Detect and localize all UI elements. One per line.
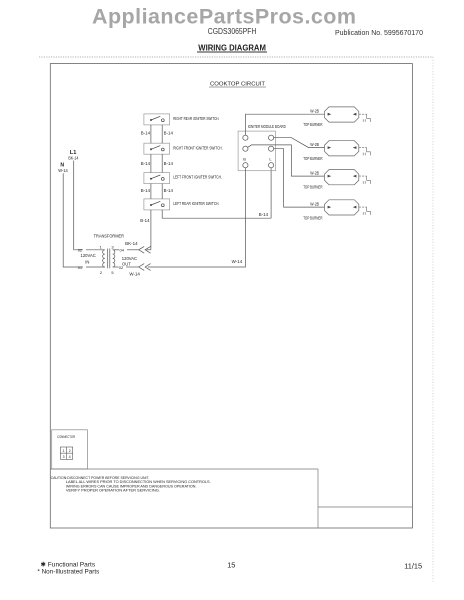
wire L1 to transformer primary top — [74, 161, 83, 250]
svg-text:2: 2 — [69, 449, 71, 453]
watermark logo AppliancePartsPros.com — [92, 5, 356, 29]
wire label B-14 row1 left — [141, 131, 151, 136]
svg-text:TOP BURNER: TOP BURNER — [303, 185, 322, 190]
svg-text:01: 01 — [78, 265, 83, 270]
svg-text:RIGHT REAR IGNITER SWITCH.: RIGHT REAR IGNITER SWITCH. — [173, 116, 219, 122]
switch S4 symbol — [150, 201, 164, 206]
transformer terminal 02 secondary — [119, 265, 124, 270]
wire L terminal vertical — [270, 168, 272, 218]
switch S1 symbol — [150, 116, 164, 121]
burner 3 (left front top burner) — [325, 170, 359, 185]
module board terminal mid-right — [269, 146, 274, 151]
terminal label L — [269, 157, 272, 162]
footer date — [404, 562, 422, 571]
svg-text:5: 5 — [111, 270, 114, 275]
transformer primary coil — [103, 250, 105, 267]
burner 4 label TOP BURNER — [303, 216, 322, 221]
burner 2 right arrow — [353, 146, 357, 149]
wire label W-14 under N — [58, 168, 68, 173]
svg-text:B-14: B-14 — [164, 131, 174, 136]
svg-text:VERIFY PROPER OPERATION AFTER: VERIFY PROPER OPERATION AFTER SERVICING. — [66, 488, 160, 493]
wire label B-14 row1 right — [164, 131, 174, 136]
transformer core — [108, 249, 110, 269]
svg-text:CGDS3065PFH: CGDS3065PFH — [208, 27, 257, 36]
footer functional parts note — [41, 561, 96, 569]
wire label B-14 row2 left — [141, 161, 151, 166]
transformer secondary wire top to 04 — [113, 249, 119, 251]
wire label W-14 near B terminal run — [232, 259, 243, 264]
svg-text:3: 3 — [111, 245, 114, 250]
svg-text:TRANSFORMER: TRANSFORMER — [94, 233, 125, 238]
svg-text:B-14: B-14 — [259, 212, 269, 217]
burner 2 wire label W-2B — [310, 142, 319, 147]
transformer pin 3 — [111, 245, 114, 250]
svg-text:4: 4 — [69, 455, 71, 459]
burner 1 spark electrode — [363, 114, 370, 122]
svg-text:IN: IN — [85, 259, 89, 264]
svg-text:IGNITER MODULE BOARD: IGNITER MODULE BOARD — [248, 124, 286, 129]
svg-text:W-2B: W-2B — [310, 201, 319, 206]
burner 4 electrode wire — [359, 206, 367, 208]
transformer pin 5 — [111, 270, 114, 275]
svg-text:02: 02 — [78, 247, 83, 252]
svg-text:W-2B: W-2B — [310, 142, 319, 147]
svg-text:B-14: B-14 — [140, 218, 150, 223]
svg-text:W-2B: W-2B — [310, 108, 319, 113]
switch S1 label — [173, 116, 219, 122]
wire B terminal down to W-14 run — [148, 168, 246, 267]
svg-text:W-14: W-14 — [129, 272, 140, 277]
switch S3 label — [173, 174, 222, 180]
svg-text:B-14: B-14 — [164, 161, 174, 166]
module board terminal top-right — [269, 135, 274, 140]
connector J1 box — [52, 430, 88, 469]
footer page number — [227, 561, 235, 570]
label 120VAC IN — [81, 253, 96, 264]
svg-text:RIGHT FRONT IGNITER SWITCH.: RIGHT FRONT IGNITER SWITCH. — [173, 146, 223, 152]
wire mid-right terminal to burner4 — [274, 149, 325, 207]
switch S3 symbol — [150, 175, 164, 180]
igniter module board box — [238, 131, 275, 171]
burner 3 left arrow — [328, 175, 332, 178]
burner 2 left arrow — [328, 146, 332, 149]
wire 02 to chevron — [126, 266, 139, 268]
module board terminal L — [269, 163, 274, 168]
model number label CGDS3065PFH — [208, 27, 257, 36]
transformer terminal 01 (neutral in) — [78, 265, 83, 270]
burner 1 (right rear top burner) — [325, 107, 359, 122]
svg-text:11/15: 11/15 — [404, 562, 422, 571]
node L1 label — [70, 150, 77, 156]
switch S2 label — [173, 146, 223, 152]
wire N to transformer primary bottom — [63, 173, 83, 267]
svg-text:B-14: B-14 — [164, 188, 174, 193]
transformer terminal 04 — [120, 247, 125, 252]
svg-text:1: 1 — [100, 245, 103, 250]
svg-text:OUT: OUT — [122, 262, 131, 267]
burner 4 spark electrode — [363, 207, 370, 215]
wire 04 to chevron — [127, 249, 139, 251]
wire right bus S1-S2 — [161, 125, 163, 143]
wire label B-14 row3 left — [141, 188, 151, 193]
svg-text:✱ Functional Parts: ✱ Functional Parts — [41, 561, 96, 569]
svg-text:BK-14: BK-14 — [68, 155, 79, 160]
burner 3 electrode wire — [359, 175, 367, 177]
transformer pin 2 — [100, 270, 103, 275]
connector J1 pin numbers — [63, 449, 71, 459]
burner 3 right arrow — [353, 175, 357, 178]
svg-text:TOP BURNER: TOP BURNER — [303, 216, 322, 221]
burner 1 label TOP BURNER — [303, 122, 322, 127]
svg-text:B-14: B-14 — [141, 161, 151, 166]
wire right bus S2-S3 — [161, 154, 163, 172]
burner 4 wire label W-2B — [310, 201, 319, 206]
switch S3 box (left front igniter switch) — [144, 173, 170, 184]
svg-text:* Non-Illustrated Parts: * Non-Illustrated Parts — [37, 569, 100, 576]
wire S4 right bus down and right to module board L terminal — [162, 210, 271, 218]
wire label BK-14 under L1 — [68, 155, 79, 160]
burner 2 spark electrode — [363, 148, 370, 156]
sheet title WIRING DIAGRAM — [197, 43, 267, 52]
svg-text:COOKTOP CIRCUIT: COOKTOP CIRCUIT — [210, 82, 265, 88]
burner 4 (left rear top burner) — [325, 200, 359, 215]
switch S2 box (right front igniter switch) — [144, 143, 170, 154]
wire label B-14 row4 left — [140, 218, 150, 223]
connector chevron on BK-14 wire — [139, 246, 151, 253]
svg-text:CONNECTOR: CONNECTOR — [57, 434, 75, 439]
switch S2 symbol — [150, 146, 164, 151]
transformer terminal 02 (line in) — [78, 247, 83, 252]
burner 3 wire label W-2B — [310, 170, 319, 175]
burner 3 spark electrode — [363, 176, 370, 184]
burner 1 electrode wire — [359, 113, 367, 115]
wire left bus S1-S2 — [150, 125, 152, 143]
publication number label — [335, 30, 423, 37]
burner 1 right arrow — [353, 113, 357, 116]
module board terminal B — [243, 163, 248, 168]
wire label B-14 row3 right — [164, 188, 174, 193]
svg-text:LEFT REAR IGNITER SWITCH.: LEFT REAR IGNITER SWITCH. — [173, 201, 219, 207]
svg-text:02: 02 — [119, 265, 124, 270]
burner 4 right arrow — [353, 206, 357, 209]
svg-text:L: L — [269, 157, 272, 162]
svg-text:1: 1 — [63, 449, 65, 453]
connector J1 pin grid — [60, 447, 72, 459]
wire left bus S3-S4 — [150, 184, 152, 199]
svg-text:W-14: W-14 — [58, 168, 68, 173]
title block divider — [318, 506, 412, 508]
connector chevron on W-14 wire — [139, 264, 151, 271]
switch S4 label — [173, 201, 219, 207]
svg-text:WIRING DIAGRAM: WIRING DIAGRAM — [198, 43, 266, 52]
diagram border frame — [50, 64, 412, 528]
module board terminal mid-left — [243, 146, 248, 151]
svg-text:Publication No. 5995670170: Publication No. 5995670170 — [335, 30, 423, 37]
connector J1 label — [57, 434, 75, 439]
wire top-left terminal to burner1 — [245, 114, 324, 135]
transformer primary wire top — [86, 249, 105, 251]
svg-text:AppliancePartsPros.com: AppliancePartsPros.com — [92, 5, 356, 29]
transformer secondary coil — [113, 250, 115, 267]
svg-text:04: 04 — [120, 247, 125, 252]
svg-text:120VAC: 120VAC — [81, 253, 96, 258]
wire label BK-14 secondary — [125, 241, 138, 246]
burner 3 label TOP BURNER — [303, 185, 322, 190]
transformer T1 label — [94, 233, 125, 238]
circuit title COOKTOP CIRCUIT — [209, 82, 266, 88]
burner 4 left arrow — [328, 206, 332, 209]
svg-text:15: 15 — [227, 561, 235, 570]
wire label B-14 row2 right — [164, 161, 174, 166]
terminal label B — [243, 157, 246, 162]
wire top-right terminal to burner2 — [274, 138, 325, 148]
svg-text:TOP BURNER: TOP BURNER — [303, 156, 322, 161]
svg-text:TOP BURNER: TOP BURNER — [303, 122, 322, 127]
switch S1 box (right rear igniter switch) — [144, 114, 170, 125]
burner 1 left arrow — [328, 113, 332, 116]
wire chevron to left bus — [147, 249, 151, 251]
svg-text:LEFT FRONT IGNITER SWITCH.: LEFT FRONT IGNITER SWITCH. — [173, 174, 222, 180]
perforation dotted line vertical — [432, 57, 434, 583]
svg-text:B: B — [243, 157, 246, 162]
module board terminal top-left — [243, 135, 248, 140]
wire mid-left terminal to burner3 — [248, 145, 325, 176]
svg-text:3: 3 — [63, 455, 65, 459]
wire label B-14 near L terminal feed — [259, 212, 269, 217]
caution note text — [51, 475, 211, 493]
svg-text:W-2B: W-2B — [310, 170, 319, 175]
burner 2 label TOP BURNER — [303, 156, 322, 161]
burner 2 (right front top burner) — [325, 141, 359, 156]
svg-text:2: 2 — [100, 270, 103, 275]
label 120VAC OUT — [122, 256, 137, 267]
igniter module board label — [248, 124, 286, 129]
wire right bus S3-S4 — [161, 184, 163, 199]
burner 2 electrode wire — [359, 147, 367, 149]
svg-text:B-14: B-14 — [141, 131, 151, 136]
svg-text:W-14: W-14 — [232, 259, 243, 264]
caution note box — [50, 469, 318, 528]
wire left bus S4 down to transformer secondary — [150, 210, 152, 250]
svg-text:BK-14: BK-14 — [125, 241, 138, 246]
transformer secondary wire bottom to 02 — [113, 266, 119, 268]
perforation dotted line horizontal — [39, 56, 433, 58]
wire left bus S2-S3 — [150, 154, 152, 172]
svg-text:120VAC: 120VAC — [122, 256, 137, 261]
node N label — [60, 162, 64, 168]
switch S4 box (left rear igniter switch) — [144, 199, 170, 210]
footer non-illustrated parts note — [37, 569, 100, 576]
burner 1 wire label W-2B — [310, 108, 319, 113]
svg-text:B-14: B-14 — [141, 188, 151, 193]
transformer primary wire bottom — [86, 266, 105, 268]
transformer pin 1 — [100, 245, 103, 250]
wire label W-14 secondary — [129, 272, 140, 277]
